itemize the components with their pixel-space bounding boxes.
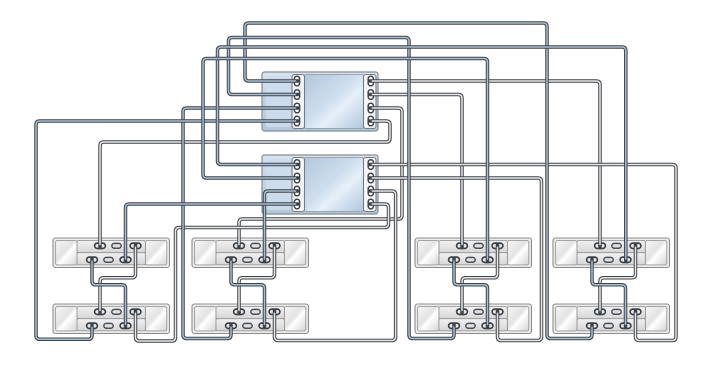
- controller C2 left port 2: [294, 173, 299, 183]
- disk shelf D41 left cap: [556, 241, 577, 265]
- controller C2 left port 4: [294, 199, 299, 209]
- disk shelf D21 top IOM row: [216, 241, 284, 253]
- disk shelf D41 right cap: [645, 241, 666, 265]
- controller C2 left port 3: [294, 186, 299, 196]
- disk shelf D11 bottom-right port: [119, 256, 132, 264]
- wire C1 left port4 to shelf D12 bottom-left: [36, 121, 298, 339]
- wire C2 right port4 to shelf D12 top-right: [136, 204, 389, 341]
- controller C1 right port strip: [364, 75, 377, 129]
- wire shelf D21 bottom-left to shelf D22 bottom-right: [231, 259, 265, 327]
- disk shelf D41 top IOM row: [577, 241, 645, 253]
- disk shelf D31 bottom IOM row: [439, 253, 507, 265]
- disk shelf D31 top-left port: [455, 242, 468, 250]
- disk shelf D31 bottom-left port: [447, 256, 460, 264]
- disk shelf D32 chassis: [415, 304, 532, 334]
- controller C1 left port strip: [292, 75, 305, 129]
- disk shelf D22 bottom IOM row: [216, 319, 284, 331]
- disk shelf D42 bottom-left port: [585, 322, 598, 330]
- wire C2 left port4 to shelf D11 bottom-right: [126, 204, 299, 262]
- controller C2 chassis: [262, 155, 378, 214]
- controller C1 right port 2: [368, 90, 373, 100]
- disk shelf D31 right cap: [507, 241, 528, 265]
- controller C2 left port 1: [294, 160, 299, 170]
- controller C2 right port 1: [368, 160, 373, 170]
- disk shelf D12 left cap: [56, 307, 77, 331]
- disk shelf D22 left cap: [195, 307, 216, 331]
- controller C1 left port 1: [294, 76, 299, 86]
- disk shelf D21 top-left port: [232, 242, 245, 250]
- disk shelf D12 bottom IOM row: [77, 319, 145, 331]
- controller C2 right port 2: [368, 173, 373, 183]
- disk shelf D22 bottom-right port: [258, 322, 271, 330]
- disk shelf D11 top-left port: [93, 242, 106, 250]
- disk shelf D32 bottom blank: [465, 322, 477, 329]
- disk shelf D42 chassis: [553, 304, 670, 334]
- disk shelf D22 top-right port: [268, 308, 281, 316]
- wire shelf D41 top-right to shelf D42 top-left: [600, 245, 636, 313]
- disk shelf D12 right cap: [145, 307, 166, 331]
- wire C1 left port2 to shelf D32 bottom-left: [229, 38, 455, 339]
- disk shelf D21 bottom-right port: [258, 256, 271, 264]
- disk shelf D41 bottom-left port: [585, 256, 598, 264]
- disk shelf D31 bottom-right port: [481, 256, 494, 264]
- wire C2 left port3 to shelf D21 bottom-right: [265, 191, 299, 262]
- controller C2 left port strip: [292, 158, 305, 212]
- disk shelf D42 top blank: [611, 308, 623, 315]
- disk shelf D32 top IOM row: [439, 307, 507, 319]
- wire shelf D21 top-right to shelf D22 top-left: [239, 245, 275, 313]
- disk shelf D32 bottom IOM row: [439, 319, 507, 331]
- disk shelf D12 top IOM row: [77, 307, 145, 319]
- wire C2 right port3 to shelf D22 top-right: [275, 191, 396, 341]
- disk shelf D32 left cap: [418, 307, 439, 331]
- disk shelf D21 bottom-left port: [224, 256, 237, 264]
- disk shelf D42 top-right port: [629, 308, 642, 316]
- disk shelf D22 chassis: [192, 304, 309, 334]
- disk shelf D21 bottom blank: [242, 256, 254, 263]
- wire shelf D31 bottom-left to shelf D32 bottom-right: [454, 259, 488, 327]
- controller C2 right port 4: [368, 199, 373, 209]
- wire C1 right port2 to shelf D31 top-left: [370, 95, 462, 248]
- wire C1 right port1 to shelf D41 top-left: [370, 81, 600, 247]
- disk shelf D11 top IOM row: [77, 241, 145, 253]
- disk shelf D32 right cap: [507, 307, 528, 331]
- disk shelf D42 right cap: [645, 307, 666, 331]
- disk shelf D32 top-right port: [491, 308, 504, 316]
- disk shelf D42 bottom blank: [603, 322, 615, 329]
- disk shelf D41 top-right port: [629, 242, 642, 250]
- disk shelf D31 chassis: [415, 238, 532, 268]
- disk shelf D12 bottom-right port: [119, 322, 132, 330]
- disk shelf D21 left cap: [195, 241, 216, 265]
- controller C2 mid panel: [305, 158, 364, 212]
- wire C1 right port3 to shelf D21 top-left: [239, 108, 402, 247]
- disk shelf D21 top blank: [250, 242, 262, 249]
- disk shelf D11 right cap: [145, 241, 166, 265]
- disk shelf D11 top-right port: [129, 242, 142, 250]
- disk shelf D22 bottom-left port: [224, 322, 237, 330]
- controller C1 left port 4: [294, 116, 299, 126]
- disk shelf D12 bottom blank: [103, 322, 115, 329]
- controller C1 right port 1: [368, 76, 373, 86]
- disk shelf D31 top IOM row: [439, 241, 507, 253]
- disk shelf D41 top-left port: [593, 242, 606, 250]
- controller C2 right port strip: [364, 158, 377, 212]
- disk shelf D41 bottom blank: [603, 256, 615, 263]
- disk shelf D42 left cap: [556, 307, 577, 331]
- disk shelf D12 top-right port: [129, 308, 142, 316]
- disk shelf D32 bottom-right port: [481, 322, 494, 330]
- wire C2 right port2 to shelf D32 top-right: [370, 178, 542, 341]
- disk shelf D11 left cap: [56, 241, 77, 265]
- controller C1 left port 3: [294, 103, 299, 113]
- wire C2 left port2 to shelf D31 bottom-right: [203, 59, 488, 262]
- disk shelf D41 top blank: [611, 242, 623, 249]
- controller C1 left port 2: [294, 90, 299, 100]
- disk shelf D42 top-left port: [593, 308, 606, 316]
- wire shelf D41 bottom-left to shelf D42 bottom-right: [592, 259, 626, 327]
- disk shelf D42 top IOM row: [577, 307, 645, 319]
- disk shelf D31 top-right port: [491, 242, 504, 250]
- disk shelf D11 top blank: [111, 242, 123, 249]
- disk shelf D42 bottom IOM row: [577, 319, 645, 331]
- disk shelf D41 bottom IOM row: [577, 253, 645, 265]
- disk shelf D12 top-left port: [93, 308, 106, 316]
- controller C1 chassis: [262, 72, 378, 131]
- disk shelf D42 bottom-right port: [619, 322, 632, 330]
- disk shelf D21 right cap: [284, 241, 305, 265]
- wire shelf D11 top-right to shelf D12 top-left: [100, 245, 136, 313]
- disk shelf D22 top blank: [250, 308, 262, 315]
- disk shelf D32 bottom-left port: [447, 322, 460, 330]
- disk shelf D12 chassis: [53, 304, 170, 334]
- wire C1 left port3 to shelf D22 bottom-left: [183, 108, 298, 339]
- disk shelf D21 top-right port: [268, 242, 281, 250]
- disk shelf D11 bottom-left port: [85, 256, 98, 264]
- disk shelf D22 top-left port: [232, 308, 245, 316]
- disk shelf D31 bottom blank: [465, 256, 477, 263]
- disk shelf D41 chassis: [553, 238, 670, 268]
- controller C1 right port 4: [368, 116, 373, 126]
- disk shelf D32 top blank: [473, 308, 485, 315]
- wire C2 right port1 to shelf D42 top-right: [370, 165, 676, 341]
- disk shelf D31 left cap: [418, 241, 439, 265]
- wire C2 left port1 to shelf D41 bottom-right: [218, 47, 626, 262]
- disk shelf D41 bottom-right port: [619, 256, 632, 264]
- disk shelf D21 chassis: [192, 238, 309, 268]
- wire shelf D11 bottom-left to shelf D12 bottom-right: [92, 259, 126, 327]
- wire C1 right port4 to shelf D11 top-left: [100, 121, 390, 247]
- disk shelf D32 top-left port: [455, 308, 468, 316]
- controller C2 right port 3: [368, 186, 373, 196]
- disk shelf D22 right cap: [284, 307, 305, 331]
- controller C1 mid panel: [305, 75, 364, 129]
- disk shelf D11 bottom blank: [103, 256, 115, 263]
- disk shelf D22 top IOM row: [216, 307, 284, 319]
- wire shelf D31 top-right to shelf D32 top-left: [462, 245, 498, 313]
- disk shelf D12 top blank: [111, 308, 123, 315]
- disk shelf D11 chassis: [53, 238, 170, 268]
- disk shelf D31 top blank: [473, 242, 485, 249]
- disk shelf D11 bottom IOM row: [77, 253, 145, 265]
- disk shelf D22 bottom blank: [242, 322, 254, 329]
- disk shelf D21 bottom IOM row: [216, 253, 284, 265]
- wire C1 left port1 to shelf D42 bottom-left: [245, 23, 592, 339]
- controller C1 right port 3: [368, 103, 373, 113]
- disk shelf D12 bottom-left port: [85, 322, 98, 330]
